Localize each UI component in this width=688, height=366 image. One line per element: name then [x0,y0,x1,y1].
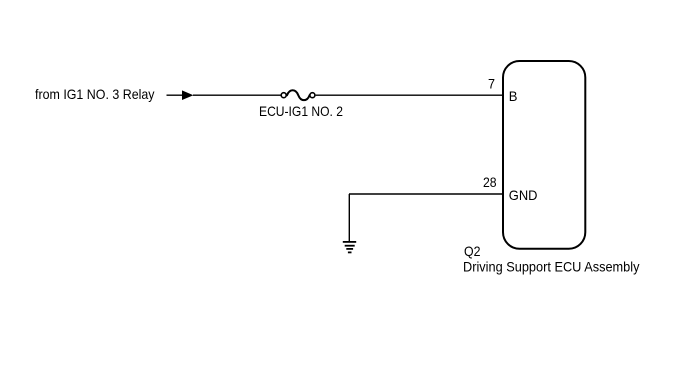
wire: ground branch horizontal run to pin 28 (GND) [349,193,503,195]
fuse ECU-IG1 NO. 2: right terminal circle [310,93,315,98]
svg-text:from IG1 NO. 3 Relay: from IG1 NO. 3 Relay [35,86,155,102]
svg-text:ECU-IG1 NO. 2: ECU-IG1 NO. 2 [259,103,343,119]
ECU connector box Q2 [503,61,585,249]
svg-text:7: 7 [488,76,495,92]
fuse ECU-IG1 NO. 2: wavy element [287,90,310,100]
ground symbol [343,242,356,253]
wire: vertical drop to ground [348,194,350,241]
svg-text:Driving Support ECU Assembly: Driving Support ECU Assembly [463,259,640,275]
fuse ECU-IG1 NO. 2: left terminal circle [281,93,286,98]
wire: stub before arrow [167,94,184,96]
svg-text:28: 28 [483,174,497,190]
svg-text:B: B [509,88,518,104]
svg-text:GND: GND [509,187,538,203]
wire: arrow to fuse left terminal [193,94,281,96]
wire: fuse to pin 7 (B) of ECU [316,94,503,96]
arrowhead: signal direction into wire [182,90,193,100]
svg-text:Q2: Q2 [464,243,481,259]
